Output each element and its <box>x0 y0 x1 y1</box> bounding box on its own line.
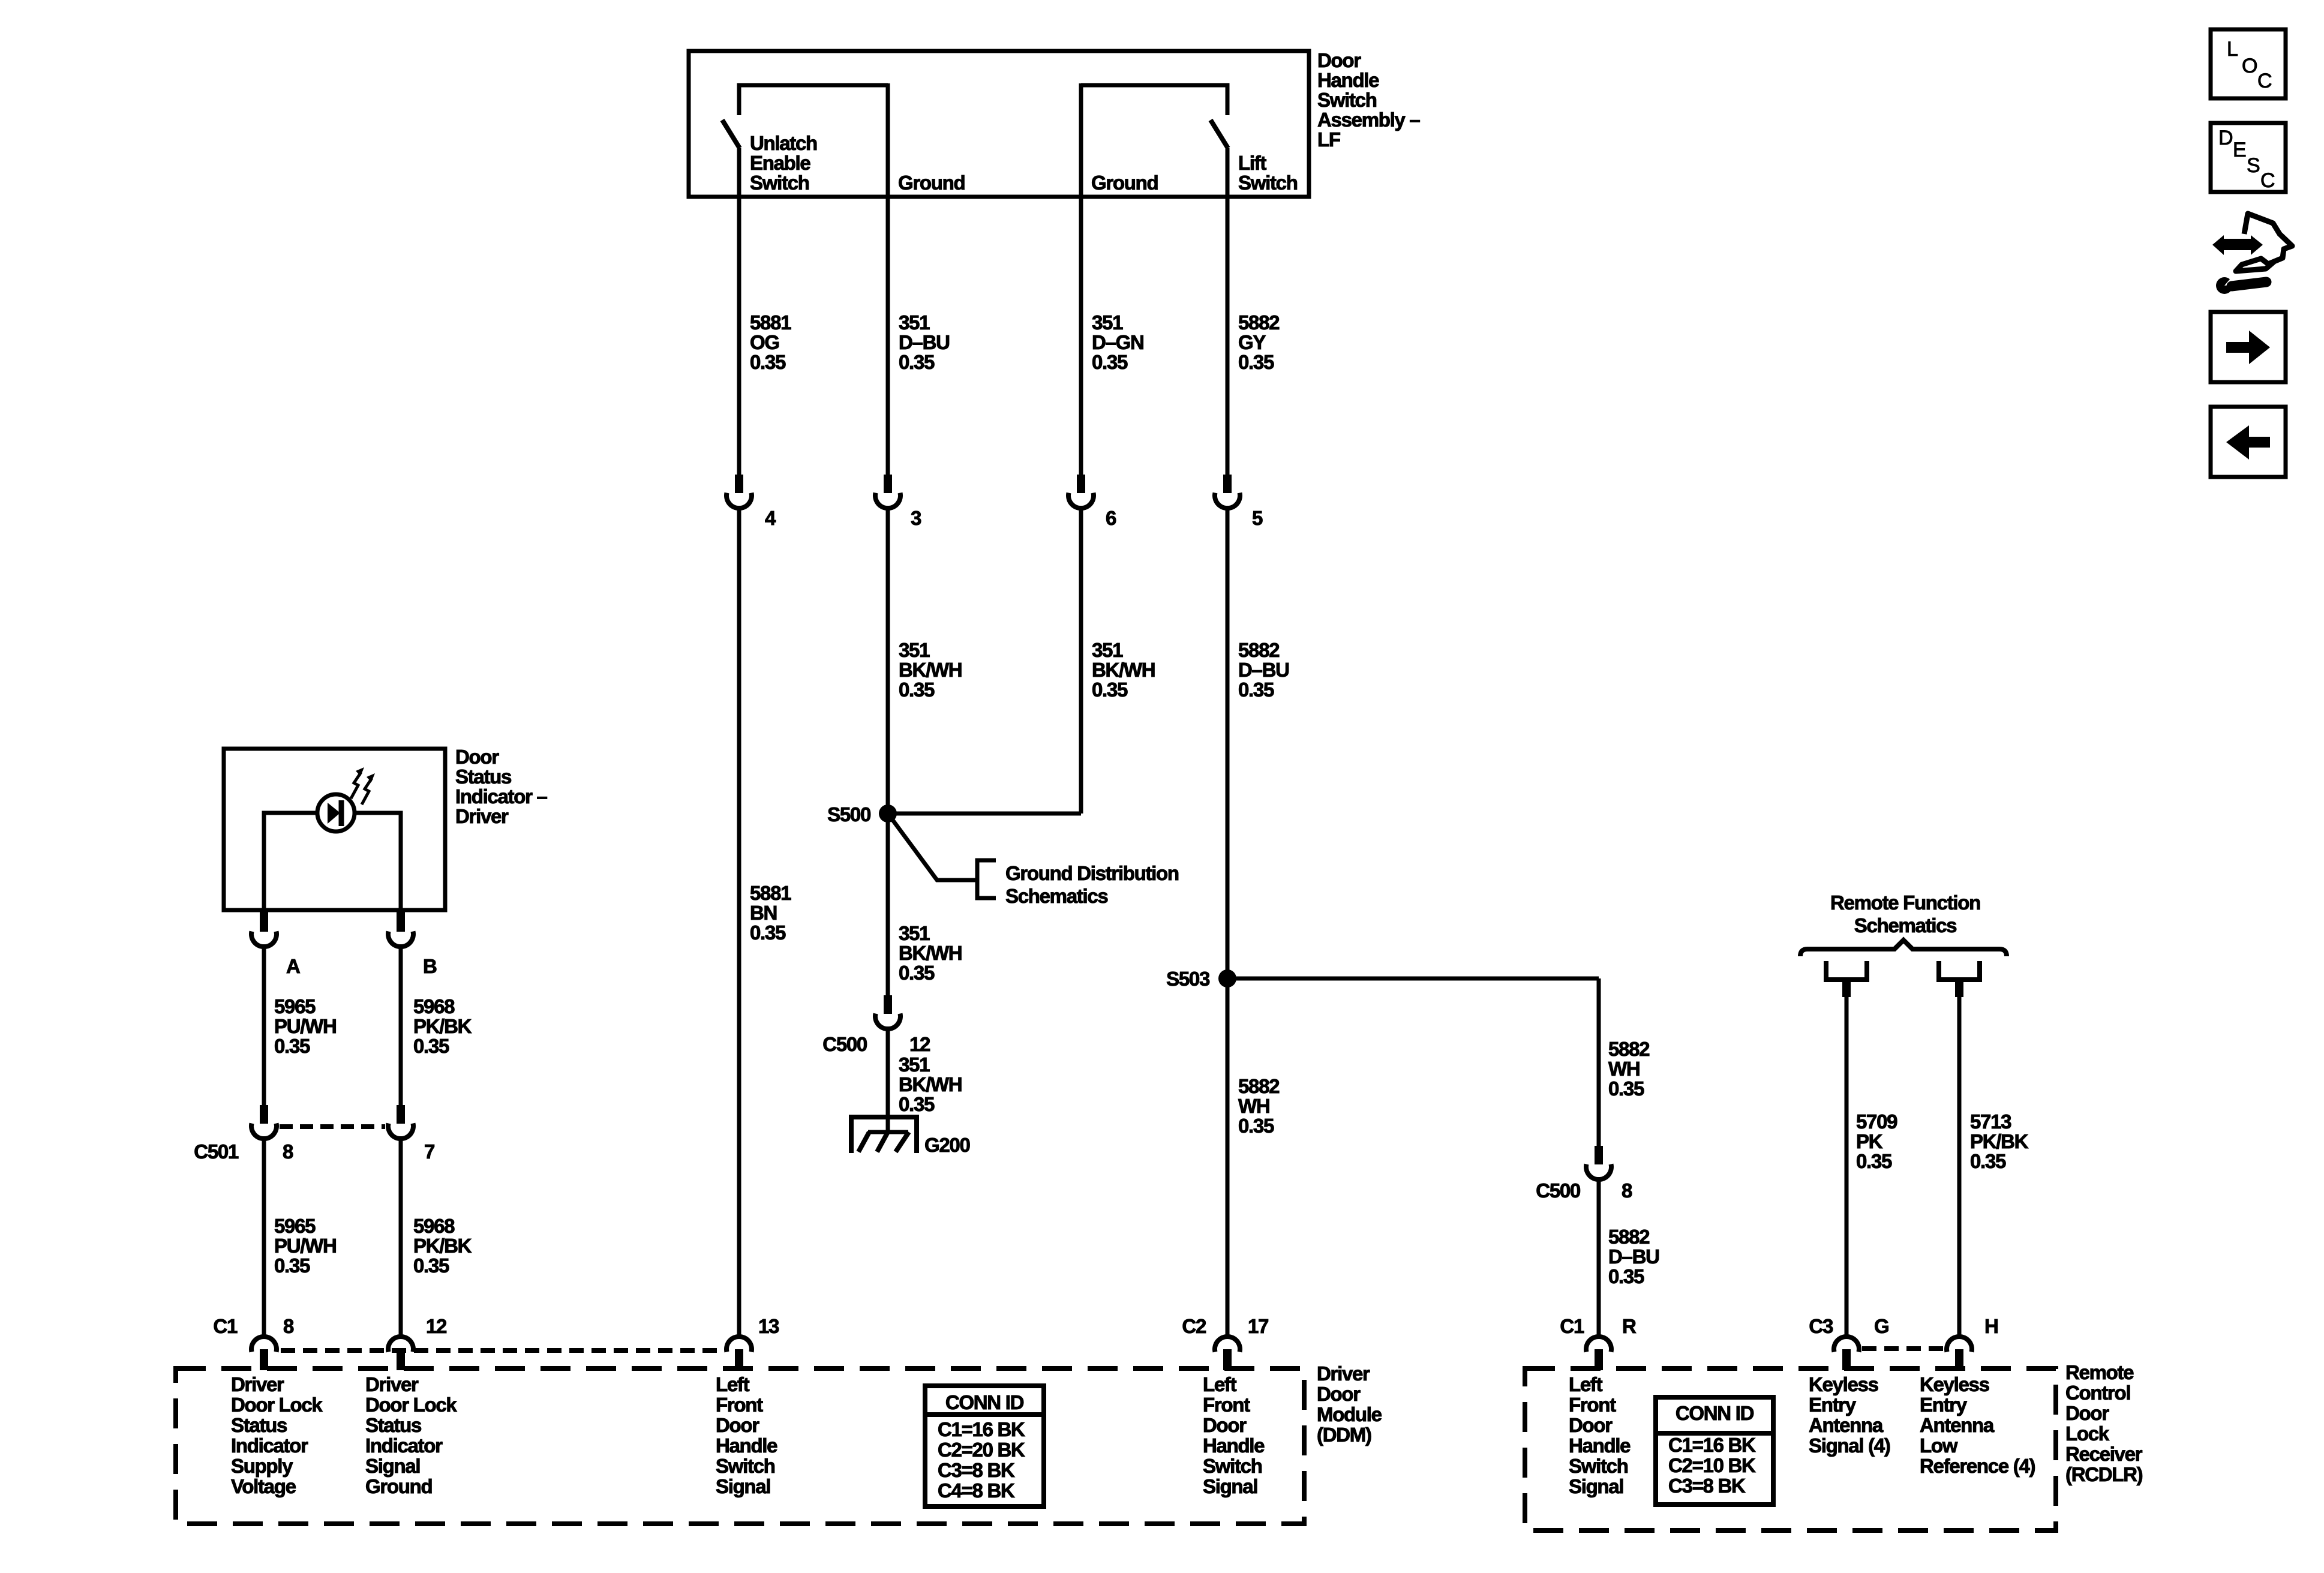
svg-text:Ground: Ground <box>1091 172 1158 194</box>
svg-text:C1=16 BK: C1=16 BK <box>938 1418 1025 1440</box>
svg-text:12: 12 <box>909 1033 930 1055</box>
svg-text:C4=8 BK: C4=8 BK <box>938 1479 1015 1502</box>
svg-text:5881: 5881 <box>750 882 791 904</box>
svg-text:Status: Status <box>365 1414 421 1436</box>
svg-text:5882: 5882 <box>1238 639 1280 661</box>
svg-text:Handle: Handle <box>1203 1434 1265 1457</box>
svg-text:Switch: Switch <box>716 1455 775 1477</box>
svg-text:Driver: Driver <box>1317 1362 1370 1385</box>
svg-text:C2=20 BK: C2=20 BK <box>938 1439 1025 1461</box>
svg-text:17: 17 <box>1248 1315 1268 1337</box>
svg-text:0.35: 0.35 <box>899 351 935 373</box>
svg-text:0.35: 0.35 <box>274 1035 310 1057</box>
svg-text:C: C <box>2260 169 2275 192</box>
svg-text:Ground: Ground <box>898 172 965 194</box>
svg-text:5968: 5968 <box>413 995 455 1017</box>
svg-text:GY: GY <box>1238 331 1266 353</box>
svg-text:8: 8 <box>283 1315 294 1337</box>
svg-text:Enable: Enable <box>750 152 810 174</box>
svg-text:0.35: 0.35 <box>1092 679 1128 701</box>
svg-text:Lift: Lift <box>1238 152 1266 174</box>
svg-text:Voltage: Voltage <box>231 1475 296 1497</box>
svg-text:LF: LF <box>1317 128 1340 151</box>
svg-text:Ground Distribution: Ground Distribution <box>1005 862 1179 884</box>
svg-text:G200: G200 <box>924 1134 970 1156</box>
svg-text:5882: 5882 <box>1238 311 1280 334</box>
svg-text:D–BU: D–BU <box>1238 659 1289 681</box>
svg-text:Door: Door <box>1317 49 1361 71</box>
svg-text:351: 351 <box>899 1053 930 1076</box>
svg-text:351: 351 <box>1092 311 1123 334</box>
svg-text:C1: C1 <box>213 1315 238 1337</box>
svg-text:0.35: 0.35 <box>750 921 786 944</box>
svg-text:Handle: Handle <box>1569 1434 1631 1457</box>
svg-text:351: 351 <box>1092 639 1123 661</box>
svg-text:0.35: 0.35 <box>413 1254 449 1277</box>
svg-text:OG: OG <box>750 331 779 353</box>
svg-text:Low: Low <box>1920 1434 1958 1457</box>
svg-text:L: L <box>2227 38 2238 61</box>
svg-text:S500: S500 <box>827 803 870 825</box>
svg-text:Switch: Switch <box>750 172 809 194</box>
svg-text:Signal: Signal <box>1569 1475 1623 1497</box>
svg-text:C3: C3 <box>1809 1315 1833 1337</box>
svg-text:0.35: 0.35 <box>413 1035 449 1057</box>
svg-text:(DDM): (DDM) <box>1317 1424 1371 1446</box>
svg-text:Signal: Signal <box>365 1455 420 1477</box>
svg-text:Status: Status <box>455 766 511 788</box>
svg-text:0.35: 0.35 <box>1092 351 1128 373</box>
svg-text:5882: 5882 <box>1608 1226 1650 1248</box>
svg-text:PK: PK <box>1856 1130 1883 1152</box>
svg-text:Keyless: Keyless <box>1920 1373 1989 1395</box>
svg-text:5882: 5882 <box>1608 1038 1650 1060</box>
svg-text:C500: C500 <box>1536 1179 1580 1202</box>
svg-text:Door: Door <box>716 1414 759 1436</box>
svg-text:A: A <box>286 955 300 977</box>
svg-text:Door: Door <box>455 746 499 768</box>
svg-text:Door: Door <box>1203 1414 1247 1436</box>
svg-text:351: 351 <box>899 639 930 661</box>
svg-text:WH: WH <box>1608 1058 1640 1080</box>
svg-text:PU/WH: PU/WH <box>274 1015 337 1037</box>
svg-text:Left: Left <box>1569 1373 1603 1395</box>
svg-text:8: 8 <box>283 1140 293 1163</box>
svg-text:0.35: 0.35 <box>899 1093 935 1115</box>
svg-text:4: 4 <box>765 507 776 529</box>
svg-text:Lock: Lock <box>2065 1422 2110 1445</box>
svg-text:Signal: Signal <box>1203 1475 1257 1497</box>
svg-text:Indicator: Indicator <box>231 1434 308 1457</box>
svg-text:Indicator: Indicator <box>365 1434 443 1457</box>
svg-text:O: O <box>2242 55 2257 77</box>
svg-text:R: R <box>1622 1315 1637 1337</box>
svg-text:Signal (4): Signal (4) <box>1809 1434 1890 1457</box>
svg-text:C3=8 BK: C3=8 BK <box>1668 1475 1746 1497</box>
svg-text:CONN ID: CONN ID <box>1676 1402 1754 1424</box>
svg-text:5881: 5881 <box>750 311 791 334</box>
svg-text:BN: BN <box>750 902 777 924</box>
svg-text:CONN ID: CONN ID <box>945 1391 1024 1413</box>
svg-text:Handle: Handle <box>716 1434 777 1457</box>
svg-text:13: 13 <box>758 1315 779 1337</box>
svg-text:Door: Door <box>2065 1402 2109 1424</box>
svg-text:H: H <box>1984 1315 1998 1337</box>
svg-text:Antenna: Antenna <box>1920 1414 1995 1436</box>
svg-text:D: D <box>2218 127 2233 149</box>
svg-text:(RCDLR): (RCDLR) <box>2065 1463 2143 1485</box>
svg-text:Supply: Supply <box>231 1455 293 1477</box>
svg-text:12: 12 <box>426 1315 447 1337</box>
svg-text:0.35: 0.35 <box>899 679 935 701</box>
svg-text:Assembly –: Assembly – <box>1317 109 1420 131</box>
svg-text:Remote: Remote <box>2065 1361 2134 1383</box>
svg-text:Status: Status <box>231 1414 287 1436</box>
svg-text:Entry: Entry <box>1920 1394 1968 1416</box>
svg-text:351: 351 <box>899 922 930 944</box>
svg-text:Antenna: Antenna <box>1809 1414 1884 1436</box>
svg-text:Door: Door <box>1569 1414 1613 1436</box>
svg-text:D–GN: D–GN <box>1092 331 1144 353</box>
svg-text:5965: 5965 <box>274 995 316 1017</box>
svg-text:E: E <box>2233 139 2247 161</box>
svg-text:Handle: Handle <box>1317 69 1379 91</box>
svg-text:Switch: Switch <box>1203 1455 1262 1477</box>
svg-text:0.35: 0.35 <box>1856 1150 1892 1172</box>
svg-text:Front: Front <box>1569 1394 1616 1416</box>
svg-text:5709: 5709 <box>1856 1110 1897 1133</box>
svg-text:B: B <box>423 955 437 977</box>
svg-text:0.35: 0.35 <box>1608 1077 1644 1100</box>
svg-text:S503: S503 <box>1166 968 1210 990</box>
svg-text:Ground: Ground <box>365 1475 432 1497</box>
svg-text:0.35: 0.35 <box>750 351 786 373</box>
svg-text:BK/WH: BK/WH <box>1092 659 1155 681</box>
svg-text:351: 351 <box>899 311 930 334</box>
svg-text:BK/WH: BK/WH <box>899 942 962 964</box>
svg-text:7: 7 <box>424 1140 434 1163</box>
svg-text:5968: 5968 <box>413 1215 455 1237</box>
svg-text:C2=10 BK: C2=10 BK <box>1668 1454 1756 1476</box>
svg-text:D–BU: D–BU <box>899 331 950 353</box>
svg-text:5713: 5713 <box>1970 1110 2011 1133</box>
svg-text:Unlatch: Unlatch <box>750 132 817 154</box>
svg-text:Indicator –: Indicator – <box>455 785 548 807</box>
svg-text:Reference (4): Reference (4) <box>1920 1455 2035 1477</box>
svg-text:Entry: Entry <box>1809 1394 1857 1416</box>
svg-text:WH: WH <box>1238 1095 1269 1117</box>
svg-text:Switch: Switch <box>1569 1455 1628 1477</box>
svg-text:Control: Control <box>2065 1382 2130 1404</box>
svg-text:5882: 5882 <box>1238 1075 1280 1097</box>
svg-text:C: C <box>2257 70 2272 92</box>
svg-text:D–BU: D–BU <box>1608 1245 1659 1268</box>
svg-text:C2: C2 <box>1182 1315 1206 1337</box>
svg-text:Driver: Driver <box>365 1373 419 1395</box>
svg-text:C1=16 BK: C1=16 BK <box>1668 1434 1756 1456</box>
svg-text:0.35: 0.35 <box>1238 679 1274 701</box>
svg-text:Driver: Driver <box>231 1373 284 1395</box>
svg-text:5965: 5965 <box>274 1215 316 1237</box>
svg-text:Door Lock: Door Lock <box>365 1394 457 1416</box>
svg-text:0.35: 0.35 <box>1238 1115 1274 1137</box>
svg-text:Driver: Driver <box>455 805 509 827</box>
svg-text:BK/WH: BK/WH <box>899 1073 962 1095</box>
svg-text:Schematics: Schematics <box>1005 885 1107 907</box>
svg-text:C3=8 BK: C3=8 BK <box>938 1459 1015 1481</box>
svg-text:Keyless: Keyless <box>1809 1373 1878 1395</box>
svg-text:BK/WH: BK/WH <box>899 659 962 681</box>
svg-text:C501: C501 <box>194 1140 239 1163</box>
svg-text:0.35: 0.35 <box>1608 1265 1644 1287</box>
svg-text:0.35: 0.35 <box>1970 1150 2006 1172</box>
svg-text:Front: Front <box>1203 1394 1250 1416</box>
svg-text:C500: C500 <box>822 1033 867 1055</box>
svg-text:Remote Function: Remote Function <box>1830 891 1980 914</box>
svg-text:Module: Module <box>1317 1403 1382 1425</box>
svg-text:Door: Door <box>1317 1383 1361 1405</box>
svg-text:Left: Left <box>716 1373 750 1395</box>
svg-text:G: G <box>1874 1315 1888 1337</box>
svg-text:Switch: Switch <box>1238 172 1298 194</box>
svg-text:C1: C1 <box>1560 1315 1584 1337</box>
svg-text:Signal: Signal <box>716 1475 770 1497</box>
svg-text:Door Lock: Door Lock <box>231 1394 323 1416</box>
svg-text:Switch: Switch <box>1317 89 1377 111</box>
svg-text:PK/BK: PK/BK <box>413 1015 472 1037</box>
svg-text:Front: Front <box>716 1394 763 1416</box>
svg-text:Receiver: Receiver <box>2065 1443 2143 1465</box>
svg-text:8: 8 <box>1622 1179 1632 1202</box>
svg-text:Schematics: Schematics <box>1854 914 1956 936</box>
svg-text:0.35: 0.35 <box>1238 351 1274 373</box>
svg-text:PK/BK: PK/BK <box>1970 1130 2029 1152</box>
svg-text:PU/WH: PU/WH <box>274 1235 337 1257</box>
svg-text:S: S <box>2247 154 2260 177</box>
svg-text:0.35: 0.35 <box>899 962 935 984</box>
svg-text:0.35: 0.35 <box>274 1254 310 1277</box>
svg-text:Left: Left <box>1203 1373 1237 1395</box>
svg-text:3: 3 <box>911 507 921 529</box>
svg-text:PK/BK: PK/BK <box>413 1235 472 1257</box>
svg-text:6: 6 <box>1106 507 1116 529</box>
svg-text:5: 5 <box>1252 507 1263 529</box>
